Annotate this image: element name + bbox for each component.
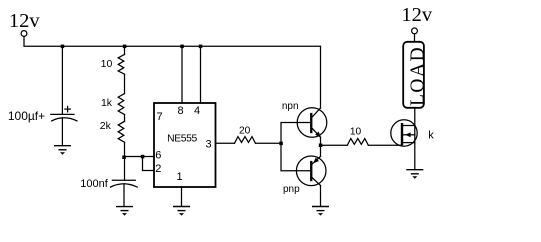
svg-text:2k: 2k (100, 120, 112, 132)
svg-text:10: 10 (101, 58, 113, 70)
svg-text:2: 2 (155, 163, 161, 175)
svg-text:4: 4 (194, 105, 200, 117)
svg-text:6: 6 (155, 150, 161, 162)
svg-text:7: 7 (157, 111, 163, 123)
svg-text:1k: 1k (101, 97, 113, 109)
svg-text:20: 20 (239, 126, 251, 137)
svg-text:npn: npn (282, 101, 299, 112)
svg-text:3: 3 (205, 139, 211, 151)
svg-text:10: 10 (350, 127, 362, 138)
svg-text:100nf: 100nf (80, 178, 108, 190)
svg-text:8: 8 (178, 105, 184, 117)
svg-text:NE555: NE555 (167, 134, 197, 145)
svg-text:k: k (428, 130, 434, 142)
svg-text:12v: 12v (9, 10, 41, 32)
svg-text:12v: 12v (401, 4, 433, 26)
svg-text:pnp: pnp (283, 184, 300, 195)
svg-text:1: 1 (177, 171, 183, 183)
svg-text:100µf+: 100µf+ (8, 109, 45, 123)
svg-text:LOAD: LOAD (408, 46, 429, 106)
